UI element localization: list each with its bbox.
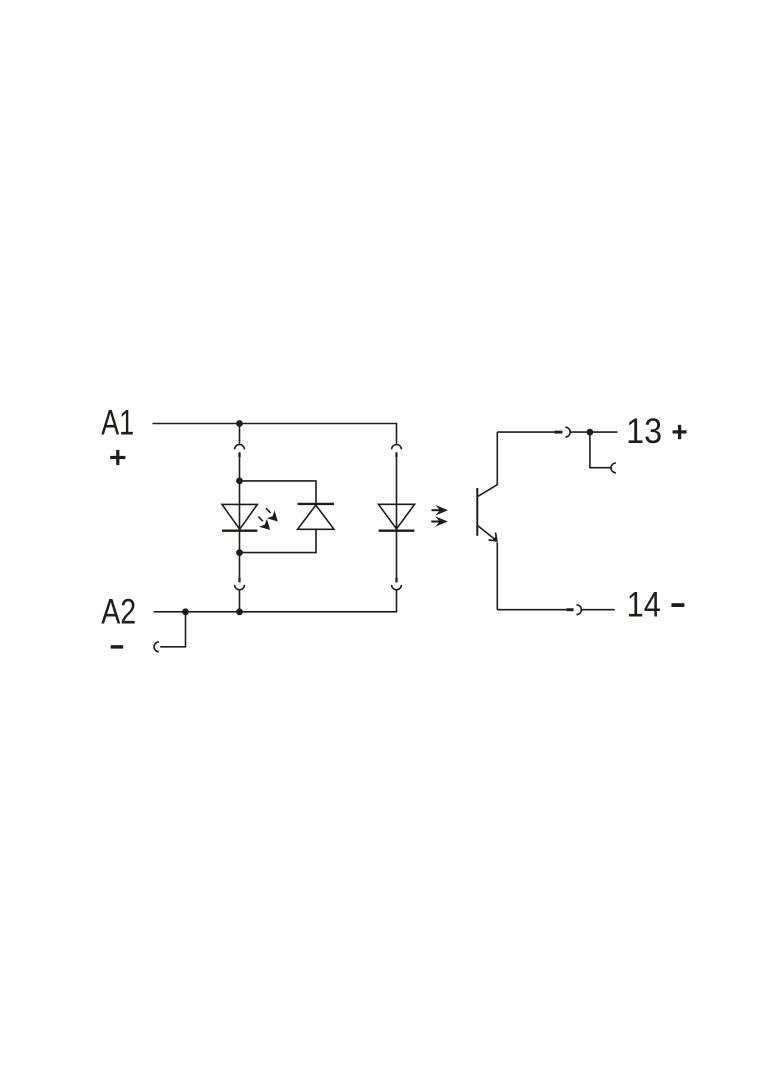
svg-text:A1: A1 — [101, 403, 134, 442]
phototransistor Q1 emitter — [478, 526, 497, 541]
junction dot lower loop — [236, 549, 243, 556]
wire 13 line left — [497, 431, 554, 433]
phototransistor Q1 collector — [478, 432, 497, 496]
socket arc on 13 line — [565, 427, 570, 437]
wire 13 unused contact stub — [590, 432, 611, 468]
svg-text:A2: A2 — [101, 592, 136, 631]
phototransistor Q1 emitter arrowhead — [489, 533, 497, 542]
pin on 13 line — [554, 431, 562, 434]
socket arc below A1 junction — [235, 445, 245, 450]
unused socket arc at A2 — [154, 642, 159, 652]
junction dot at A1 and LED branch — [236, 420, 243, 427]
pin on 14 line — [567, 608, 574, 611]
wire from socket down to A2 — [239, 590, 241, 612]
wire 14 line left — [497, 609, 566, 611]
pin above right column socket — [395, 577, 397, 582]
wire 14 line right — [581, 609, 614, 611]
junction dot upper loop — [236, 478, 243, 485]
protection diode D2 triangle — [298, 505, 334, 529]
optocoupler LED D3 triangle — [378, 504, 414, 529]
wire A2 unused contact stub — [160, 612, 185, 647]
wire A2 rail — [154, 590, 397, 612]
wire from A1 junction down — [239, 424, 241, 444]
junction dot on 13 line — [587, 429, 594, 436]
LED D1 emission arrow 1 — [266, 508, 278, 521]
svg-text:14: 14 — [627, 586, 661, 625]
LED D1 cathode bar — [222, 530, 257, 532]
wire 13 line right — [570, 431, 617, 433]
unused socket arc at 13 — [611, 463, 616, 473]
socket arc on 14 line — [577, 605, 582, 615]
junction dot at A2 unused contact — [182, 608, 189, 615]
svg-text:13: 13 — [626, 412, 662, 451]
LED D1 emission arrow 2 — [258, 517, 270, 530]
wire loop bottom — [240, 529, 317, 552]
wire A1 rail — [153, 424, 397, 444]
plus sign at terminal 13 — [673, 425, 687, 439]
wire LED branch upper — [239, 457, 241, 529]
pin above A2 socket — [238, 577, 240, 582]
LED D1 triangle — [222, 504, 257, 529]
wire loop top — [240, 481, 317, 503]
minus sign at terminal 14 — [671, 603, 684, 607]
coupling light arrow 1 — [432, 505, 449, 516]
protection diode D2 bar — [298, 503, 334, 505]
minus sign at terminal A2 — [111, 645, 124, 648]
junction dot at A2 and LED branch — [236, 608, 243, 615]
socket arc above A2 rail right column — [392, 585, 402, 590]
wire optocoupler LED lower — [396, 529, 398, 578]
plus sign at terminal A1 — [110, 450, 125, 465]
optocoupler LED D3 cathode bar — [379, 530, 415, 532]
pin below A1 socket — [238, 452, 240, 457]
coupling light arrow 2 — [431, 516, 448, 527]
pin below right column socket — [395, 452, 397, 457]
socket arc below A1 rail right column — [392, 444, 402, 449]
wire optocoupler LED upper — [396, 457, 398, 529]
wire emitter down — [496, 542, 498, 609]
wire LED branch lower — [239, 529, 241, 577]
socket arc above A2 — [235, 585, 245, 590]
phototransistor Q1 base bar — [476, 488, 478, 536]
